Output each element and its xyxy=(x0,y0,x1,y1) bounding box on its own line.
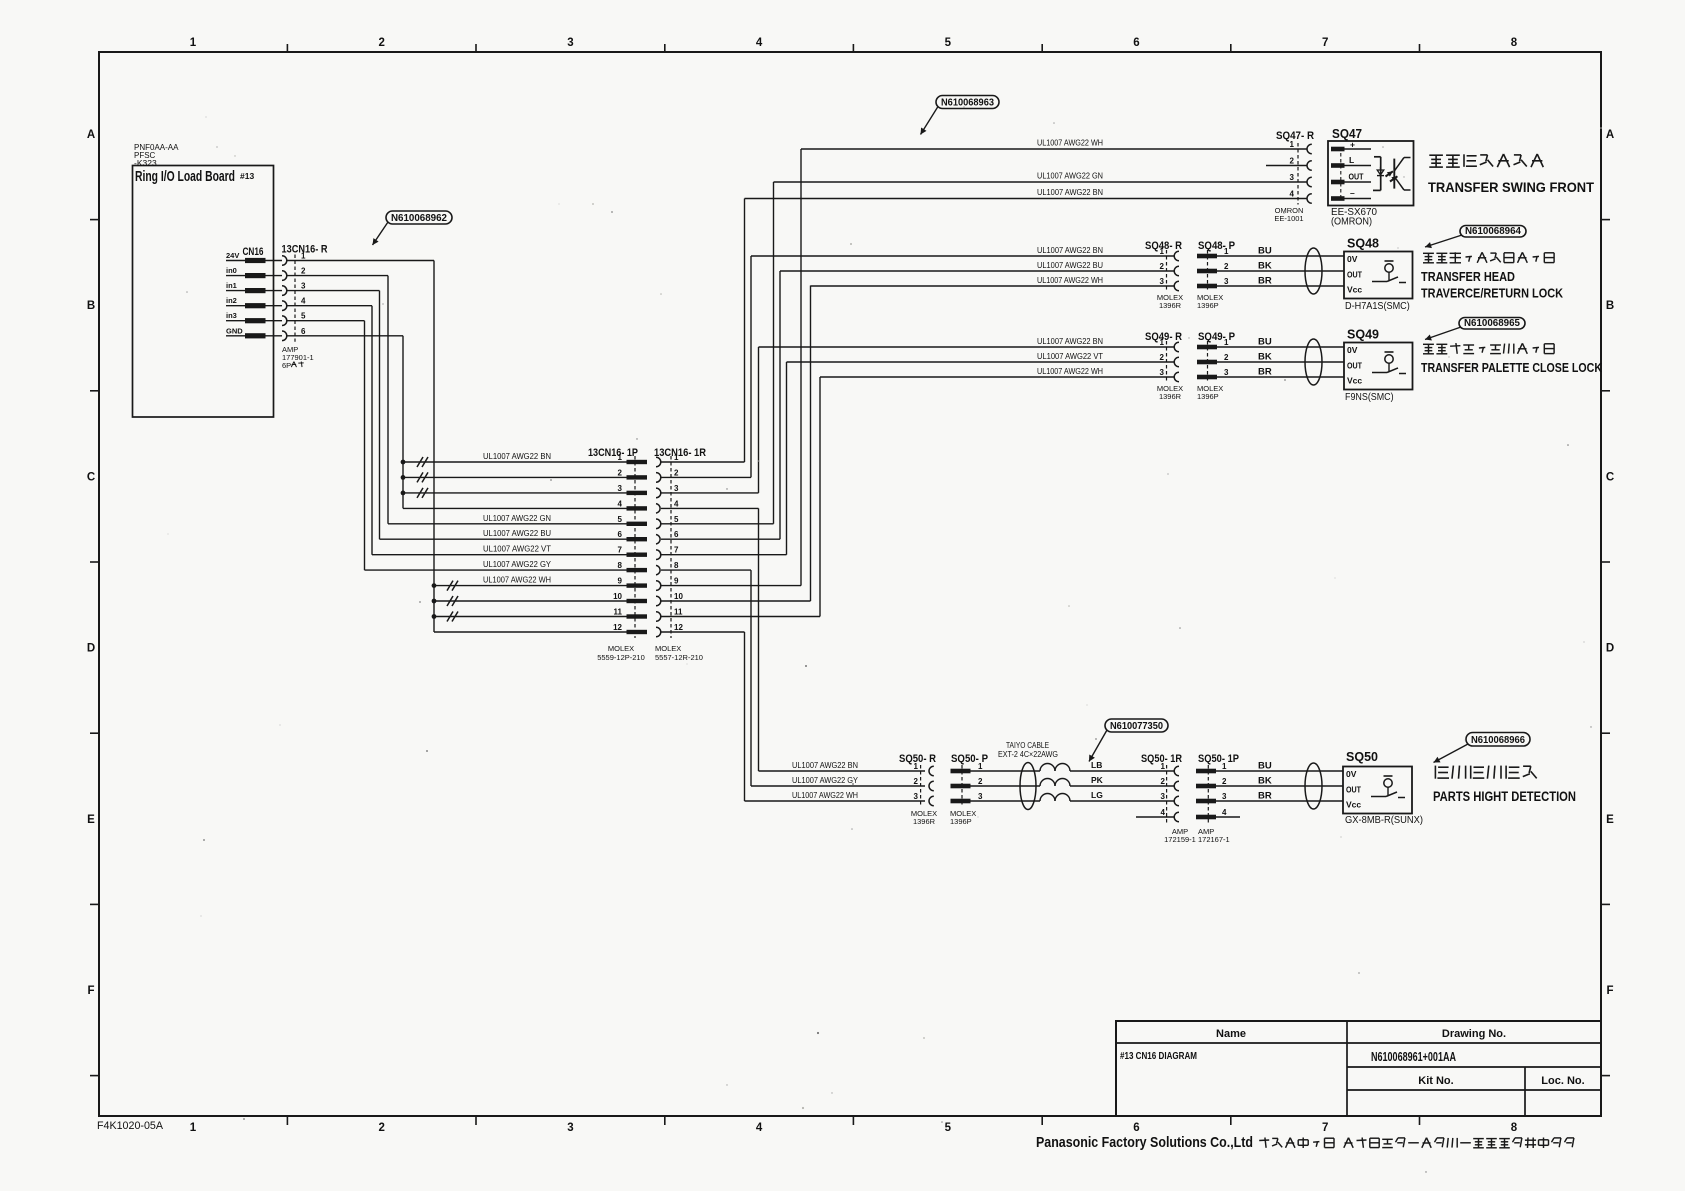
svg-text:in0: in0 xyxy=(226,266,237,275)
svg-text:Vcc: Vcc xyxy=(1346,800,1361,810)
svg-text:N610077350: N610077350 xyxy=(1110,720,1163,732)
svg-text:11: 11 xyxy=(614,608,623,617)
svg-text:4: 4 xyxy=(1161,808,1166,817)
svg-text:4: 4 xyxy=(1290,190,1295,199)
svg-text:3: 3 xyxy=(1224,277,1229,286)
svg-text:-K323: -K323 xyxy=(134,158,157,168)
svg-text:N610068964: N610068964 xyxy=(1465,225,1521,237)
svg-text:1396R: 1396R xyxy=(913,817,936,826)
svg-text:0V: 0V xyxy=(1347,254,1358,264)
svg-text:BU: BU xyxy=(1258,761,1272,772)
svg-text:F: F xyxy=(1606,985,1613,997)
svg-text:UL1007 AWG22 BU: UL1007 AWG22 BU xyxy=(1037,261,1103,270)
svg-text:6: 6 xyxy=(1133,37,1139,49)
svg-text:B: B xyxy=(1606,300,1614,312)
svg-text:UL1007 AWG22 BU: UL1007 AWG22 BU xyxy=(483,529,551,538)
svg-text:B: B xyxy=(87,300,95,312)
svg-text:UL1007 AWG22 WH: UL1007 AWG22 WH xyxy=(483,576,551,585)
svg-text:7: 7 xyxy=(674,546,679,555)
svg-text:1: 1 xyxy=(190,37,197,49)
svg-text:GX-8MB-R(SUNX): GX-8MB-R(SUNX) xyxy=(1345,815,1423,826)
svg-text:BR: BR xyxy=(1258,367,1272,378)
svg-text:OUT: OUT xyxy=(1347,361,1363,371)
svg-text:4: 4 xyxy=(301,297,306,306)
svg-text:N610068961+001AA: N610068961+001AA xyxy=(1371,1049,1456,1064)
svg-text:3: 3 xyxy=(567,1122,573,1134)
svg-text:A: A xyxy=(87,129,95,141)
svg-text:N610068963: N610068963 xyxy=(941,96,994,108)
svg-text:1396P: 1396P xyxy=(1197,392,1219,401)
svg-text:BU: BU xyxy=(1258,246,1272,257)
svg-text:8: 8 xyxy=(674,561,679,570)
svg-text:PARTS HIGHT DETECTION: PARTS HIGHT DETECTION xyxy=(1433,789,1576,804)
svg-text:Panasonic Factory Solutions Co: Panasonic Factory Solutions Co.,Ltd xyxy=(1036,1134,1253,1151)
svg-text:C: C xyxy=(87,471,95,483)
svg-text:UL1007 AWG22 GN: UL1007 AWG22 GN xyxy=(1037,172,1103,181)
svg-text:#13 CN16 DIAGRAM: #13 CN16 DIAGRAM xyxy=(1120,1050,1197,1062)
svg-text:7: 7 xyxy=(618,546,623,555)
svg-text:BR: BR xyxy=(1258,276,1272,287)
svg-text:3: 3 xyxy=(567,37,573,49)
svg-text:4: 4 xyxy=(756,1122,763,1134)
svg-text:6: 6 xyxy=(674,530,679,539)
svg-text:N610068966: N610068966 xyxy=(1471,734,1525,746)
svg-text:8: 8 xyxy=(618,561,623,570)
svg-text:2: 2 xyxy=(1222,777,1227,786)
svg-text:UL1007 AWG22 WH: UL1007 AWG22 WH xyxy=(1037,367,1103,376)
svg-text:GND: GND xyxy=(226,326,243,335)
svg-text:6: 6 xyxy=(1133,1122,1139,1134)
svg-text:10: 10 xyxy=(674,592,683,601)
svg-text:F4K1020-05A: F4K1020-05A xyxy=(97,1120,164,1132)
svg-text:4: 4 xyxy=(618,499,623,508)
svg-text:0V: 0V xyxy=(1347,345,1358,355)
svg-text:UL1007 AWG22 WH: UL1007 AWG22 WH xyxy=(1037,139,1103,148)
svg-text:UL1007 AWG22 WH: UL1007 AWG22 WH xyxy=(1037,276,1103,285)
svg-text:3: 3 xyxy=(1160,368,1165,377)
svg-text:8: 8 xyxy=(1511,1122,1518,1134)
svg-text:5: 5 xyxy=(301,312,306,321)
svg-text:UL1007 AWG22 BN: UL1007 AWG22 BN xyxy=(792,761,858,770)
svg-text:2: 2 xyxy=(1160,353,1165,362)
svg-text:TRANSFER PALETTE CLOSE LOCK: TRANSFER PALETTE CLOSE LOCK xyxy=(1421,360,1602,375)
svg-text:EXT-2 4C×22AWG: EXT-2 4C×22AWG xyxy=(998,750,1058,759)
svg-text:BK: BK xyxy=(1258,776,1272,787)
svg-text:1396P: 1396P xyxy=(1197,301,1219,310)
svg-text:SQ47- R: SQ47- R xyxy=(1276,130,1314,142)
svg-text:SQ49: SQ49 xyxy=(1347,327,1379,342)
svg-text:Drawing No.: Drawing No. xyxy=(1442,1028,1506,1040)
svg-text:13CN16- 1P: 13CN16- 1P xyxy=(588,447,638,459)
svg-text:N610068962: N610068962 xyxy=(391,212,447,224)
svg-text:3: 3 xyxy=(1160,277,1165,286)
svg-text:UL1007 AWG22 BN: UL1007 AWG22 BN xyxy=(1037,337,1103,346)
svg-text:C: C xyxy=(1606,471,1614,483)
svg-text:PK: PK xyxy=(1091,775,1104,785)
svg-text:Name: Name xyxy=(1216,1028,1246,1040)
svg-text:2: 2 xyxy=(1161,777,1166,786)
svg-text:5557-12R-210: 5557-12R-210 xyxy=(655,653,703,662)
svg-text:1396R: 1396R xyxy=(1159,301,1182,310)
svg-text:SQ49- R: SQ49- R xyxy=(1145,331,1182,343)
svg-text:1396P: 1396P xyxy=(950,817,972,826)
svg-text:0V: 0V xyxy=(1346,769,1357,779)
svg-text:N610068965: N610068965 xyxy=(1464,317,1520,329)
svg-text:F9NS(SMC): F9NS(SMC) xyxy=(1345,392,1394,403)
svg-text:in1: in1 xyxy=(226,281,237,290)
svg-text:3: 3 xyxy=(674,484,679,493)
svg-text:7: 7 xyxy=(1322,37,1328,49)
svg-text:6: 6 xyxy=(301,327,306,336)
svg-text:in2: in2 xyxy=(226,296,237,305)
svg-text:LG: LG xyxy=(1091,790,1103,800)
svg-text:CN16: CN16 xyxy=(243,246,264,258)
svg-text:9: 9 xyxy=(618,577,623,586)
svg-text:SQ50- 1P: SQ50- 1P xyxy=(1198,753,1239,765)
svg-text:L: L xyxy=(1349,155,1354,165)
svg-text:2: 2 xyxy=(914,777,919,786)
svg-text:(OMRON): (OMRON) xyxy=(1331,216,1372,228)
svg-text:3: 3 xyxy=(618,484,623,493)
svg-text:1396R: 1396R xyxy=(1159,392,1182,401)
svg-text:TRANSFER SWING FRONT: TRANSFER SWING FRONT xyxy=(1428,179,1594,195)
svg-text:OUT: OUT xyxy=(1346,785,1362,795)
svg-text:F: F xyxy=(87,985,94,997)
svg-text:12: 12 xyxy=(613,623,622,632)
svg-text:E: E xyxy=(1606,814,1614,826)
svg-text:4: 4 xyxy=(1222,808,1227,817)
svg-text:UL1007 AWG22 GN: UL1007 AWG22 GN xyxy=(483,514,551,523)
svg-text:D: D xyxy=(87,643,95,655)
svg-text:10: 10 xyxy=(613,592,622,601)
svg-text:D: D xyxy=(1606,643,1614,655)
svg-text:SQ47: SQ47 xyxy=(1332,126,1362,141)
svg-text:UL1007 AWG22 BN: UL1007 AWG22 BN xyxy=(483,452,551,461)
svg-text:12: 12 xyxy=(674,623,683,632)
svg-text:SQ50: SQ50 xyxy=(1346,749,1378,764)
svg-text:BK: BK xyxy=(1258,352,1272,363)
svg-text:Vcc: Vcc xyxy=(1347,376,1362,386)
svg-text:2: 2 xyxy=(1224,353,1229,362)
svg-text:172167-1: 172167-1 xyxy=(1198,835,1230,844)
svg-text:2: 2 xyxy=(301,267,306,276)
svg-text:BU: BU xyxy=(1258,337,1272,348)
svg-text:3: 3 xyxy=(914,792,919,801)
svg-text:3: 3 xyxy=(1222,792,1227,801)
svg-text:+: + xyxy=(1350,140,1355,150)
svg-text:SQ48- R: SQ48- R xyxy=(1145,240,1182,252)
svg-text:5: 5 xyxy=(945,1122,952,1134)
svg-text:SQ49- P: SQ49- P xyxy=(1198,331,1235,343)
svg-text:UL1007 AWG22 WH: UL1007 AWG22 WH xyxy=(792,791,858,800)
svg-text:BK: BK xyxy=(1258,261,1272,272)
svg-text:5: 5 xyxy=(618,515,623,524)
svg-text:SQ50- 1R: SQ50- 1R xyxy=(1141,753,1182,765)
svg-text:TAIYO CABLE: TAIYO CABLE xyxy=(1006,741,1049,750)
svg-text:3: 3 xyxy=(1290,173,1295,182)
svg-text:Kit No.: Kit No. xyxy=(1418,1075,1453,1087)
svg-text:SQ50- R: SQ50- R xyxy=(899,753,936,765)
svg-text:EE-1001: EE-1001 xyxy=(1274,214,1303,223)
svg-text:UL1007 AWG22 BN: UL1007 AWG22 BN xyxy=(1037,188,1103,197)
svg-text:LB: LB xyxy=(1091,760,1102,770)
svg-text:3: 3 xyxy=(301,282,306,291)
svg-text:MOLEX: MOLEX xyxy=(608,644,634,653)
svg-text:5559-12P-210: 5559-12P-210 xyxy=(597,653,645,662)
svg-text:3: 3 xyxy=(1224,368,1229,377)
svg-text:UL1007 AWG22 VT: UL1007 AWG22 VT xyxy=(1037,352,1103,361)
svg-text:UL1007 AWG22 BN: UL1007 AWG22 BN xyxy=(1037,246,1103,255)
svg-text:2: 2 xyxy=(674,468,679,477)
svg-text:UL1007 AWG22 GY: UL1007 AWG22 GY xyxy=(483,560,552,569)
svg-text:SQ50- P: SQ50- P xyxy=(951,753,988,765)
svg-text:2: 2 xyxy=(618,468,623,477)
svg-text:6P: 6P xyxy=(282,361,291,370)
svg-text:–: – xyxy=(1350,188,1355,198)
svg-text:3: 3 xyxy=(978,792,983,801)
svg-text:13CN16- 1R: 13CN16- 1R xyxy=(654,447,706,459)
svg-text:UL1007 AWG22 GY: UL1007 AWG22 GY xyxy=(792,776,859,785)
svg-text:9: 9 xyxy=(674,577,679,586)
svg-text:BR: BR xyxy=(1258,791,1272,802)
svg-text:TRANSFER HEAD: TRANSFER HEAD xyxy=(1421,269,1515,284)
svg-text:UL1007 AWG22 VT: UL1007 AWG22 VT xyxy=(483,545,551,554)
svg-text:TRAVERCE/RETURN LOCK: TRAVERCE/RETURN LOCK xyxy=(1421,286,1564,301)
svg-text:A: A xyxy=(1606,129,1614,141)
svg-text:13CN16- R: 13CN16- R xyxy=(282,244,328,256)
svg-text:3: 3 xyxy=(1161,792,1166,801)
svg-text:1: 1 xyxy=(190,1122,197,1134)
svg-text:SQ48: SQ48 xyxy=(1347,236,1379,251)
svg-text:D-H7A1S(SMC): D-H7A1S(SMC) xyxy=(1345,301,1410,312)
svg-text:2: 2 xyxy=(378,37,384,49)
svg-text:2: 2 xyxy=(378,1122,384,1134)
svg-text:2: 2 xyxy=(1160,262,1165,271)
svg-text:MOLEX: MOLEX xyxy=(655,644,681,653)
svg-text:E: E xyxy=(87,814,95,826)
svg-text:OUT: OUT xyxy=(1347,270,1363,280)
svg-text:2: 2 xyxy=(978,777,983,786)
svg-text:4: 4 xyxy=(756,37,763,49)
svg-text:7: 7 xyxy=(1322,1122,1328,1134)
svg-text:2: 2 xyxy=(1224,262,1229,271)
svg-text:5: 5 xyxy=(945,37,952,49)
svg-text:#13: #13 xyxy=(240,171,254,181)
svg-text:SQ48- P: SQ48- P xyxy=(1198,240,1235,252)
svg-text:11: 11 xyxy=(674,608,683,617)
svg-text:2: 2 xyxy=(1290,157,1295,166)
svg-text:5: 5 xyxy=(674,515,679,524)
svg-text:Ring I/O Load Board: Ring I/O Load Board xyxy=(135,168,235,185)
svg-text:172159-1: 172159-1 xyxy=(1164,835,1196,844)
svg-text:8: 8 xyxy=(1511,37,1518,49)
svg-text:24V: 24V xyxy=(226,251,239,260)
svg-text:Loc. No.: Loc. No. xyxy=(1541,1075,1584,1087)
svg-text:OUT: OUT xyxy=(1349,172,1365,182)
svg-text:6: 6 xyxy=(618,530,623,539)
svg-text:Vcc: Vcc xyxy=(1347,285,1362,295)
svg-text:in3: in3 xyxy=(226,311,237,320)
svg-text:4: 4 xyxy=(674,499,679,508)
